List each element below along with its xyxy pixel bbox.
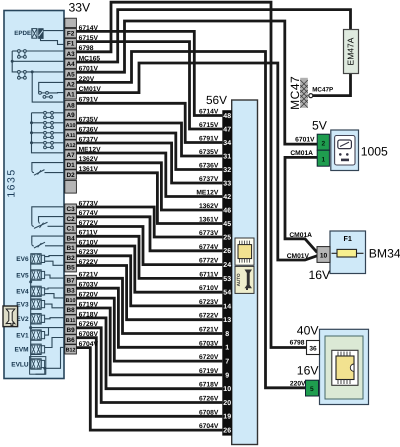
svg-text:1361V: 1361V [79, 166, 99, 173]
icon AUTO selector (central connector) [235, 266, 254, 293]
svg-text:EVLU: EVLU [11, 361, 29, 368]
svg-text:26: 26 [223, 248, 231, 255]
pin box F2 (left connector) [65, 28, 77, 37]
svg-text:6791V: 6791V [79, 97, 99, 104]
pin box C1 (left connector) [65, 224, 77, 233]
svg-text:1362V: 1362V [199, 203, 219, 210]
svg-text:6711V: 6711V [199, 271, 219, 278]
svg-text:6721V: 6721V [79, 272, 99, 279]
contact switch S1 (A3) [18, 50, 27, 59]
svg-text:1362V: 1362V [79, 156, 99, 163]
junction A5 row [31, 70, 34, 73]
selector switch C3/C2/C1 blade [32, 222, 48, 229]
svg-text:6701V: 6701V [295, 137, 315, 144]
svg-text:34: 34 [223, 140, 231, 147]
svg-text:6773V: 6773V [199, 230, 219, 237]
wire bus to contact A9 [32, 112, 44, 114]
svg-text:6774V: 6774V [199, 244, 219, 251]
pin box B4 (left connector) [65, 233, 77, 242]
wire pin C2 to selector [39, 217, 65, 222]
wire 6722V (B5 to central pin 13) [76, 266, 222, 320]
svg-text:B6: B6 [67, 337, 76, 344]
svg-text:6703V: 6703V [199, 340, 219, 347]
svg-text:B9: B9 [67, 327, 76, 334]
svg-text:6704V: 6704V [199, 423, 219, 430]
svg-text:6714V: 6714V [79, 25, 99, 32]
svg-text:16V: 16V [297, 363, 320, 377]
svg-text:6798: 6798 [79, 45, 94, 52]
pin box A4 (left connector) [65, 59, 77, 68]
component EPDE element 2 [39, 29, 44, 39]
svg-text:CM01A: CM01A [289, 232, 312, 239]
svg-text:CM01V: CM01V [79, 86, 102, 93]
svg-text:53: 53 [223, 276, 231, 283]
svg-text:B4: B4 [67, 235, 76, 242]
solenoid valve EV5 [31, 270, 45, 280]
svg-text:6726V: 6726V [199, 396, 219, 403]
wire 6791V (A8 to central pin 34) [76, 103, 222, 142]
wire EV3 to pin B8 [45, 304, 65, 308]
wire pin B4 to switch [32, 236, 65, 244]
svg-text:C1: C1 [67, 226, 76, 233]
pin box B7 (left connector) [65, 275, 77, 284]
svg-text:6719V: 6719V [79, 301, 99, 308]
wire sensor bus A9-A7 [32, 113, 65, 153]
svg-text:6703V: 6703V [79, 282, 99, 289]
wire 6726V (B9 to central pin 20) [76, 328, 222, 403]
junction bus B9 row [29, 326, 32, 329]
junction bus row A11 [30, 131, 33, 134]
svg-text:36: 36 [309, 346, 317, 353]
component BM34 body [330, 231, 366, 274]
svg-text:EV4: EV4 [16, 289, 29, 296]
svg-text:MC165: MC165 [79, 55, 101, 62]
svg-text:6711V: 6711V [79, 230, 99, 237]
wire 6701V (A5 to 1005 pin 2) [76, 21, 317, 144]
solenoid valve EV3 [31, 299, 45, 309]
svg-text:F1: F1 [67, 41, 75, 48]
pin box 36 [307, 341, 320, 355]
pictogram solenoid icon [3, 306, 18, 327]
svg-text:26: 26 [223, 428, 231, 435]
svg-text:16V: 16V [309, 268, 332, 282]
splice MC47P node [309, 94, 313, 98]
pin box A9 (left connector) [65, 110, 77, 119]
pin box A2 (left connector) [65, 79, 77, 88]
svg-text:D1: D1 [67, 162, 76, 169]
svg-text:42: 42 [223, 194, 231, 201]
svg-text:220V: 220V [79, 76, 95, 83]
svg-text:6720V: 6720V [79, 292, 99, 299]
pin box A11 (left connector) [65, 130, 77, 139]
pin box B6 (left connector) [65, 335, 77, 344]
pin box B12 (left connector) [65, 345, 77, 354]
solenoid valve EVM [31, 344, 45, 354]
svg-text:EV1: EV1 [16, 332, 29, 339]
svg-text:14: 14 [223, 303, 231, 310]
wire CM01A (1005 pin 1 to BM34 pin 10) [285, 157, 317, 252]
svg-text:A4: A4 [67, 61, 76, 68]
svg-text:6708V: 6708V [79, 331, 99, 338]
svg-text:6773V: 6773V [79, 200, 99, 207]
wire bus to contact A3 [12, 50, 17, 52]
svg-text:6708V: 6708V [199, 409, 219, 416]
solenoid valve EVLU [31, 359, 45, 369]
svg-text:7: 7 [225, 359, 229, 366]
component 1005 inner [335, 136, 355, 166]
icon chip (central connector) [235, 238, 254, 265]
wire 6714V (F2 to central pin 48) [76, 31, 222, 115]
wire 1362V (D1 to central pin 46) [76, 163, 222, 210]
wire 220V (A2 to pin 5) [76, 52, 305, 388]
pin box B5 (left connector) [65, 263, 77, 272]
wire EV4 to pin B3 [45, 288, 65, 289]
svg-text:10: 10 [320, 253, 328, 260]
wire 6715V (F1 to central pin 47) [76, 42, 222, 129]
svg-text:EV5: EV5 [16, 272, 29, 279]
svg-text:6736V: 6736V [79, 126, 99, 133]
pin box 10 (BM34) [317, 247, 330, 263]
svg-text:6710V: 6710V [199, 285, 219, 292]
svg-text:A12: A12 [66, 143, 76, 149]
wire contact S2 to pin A5 [27, 71, 65, 73]
pin box 2 (1005) [317, 134, 329, 150]
svg-text:19: 19 [223, 414, 231, 421]
svg-text:9: 9 [225, 372, 229, 379]
svg-text:6774V: 6774V [79, 210, 99, 217]
svg-text:6714V: 6714V [199, 109, 219, 116]
svg-text:A10: A10 [66, 123, 76, 129]
solenoid valve EV4 [31, 286, 45, 296]
svg-text:31: 31 [223, 153, 231, 160]
svg-text:MC47: MC47 [288, 76, 302, 110]
svg-text:6701V: 6701V [79, 66, 99, 73]
central pin strip [222, 110, 232, 435]
svg-text:6737V: 6737V [79, 136, 99, 143]
pin box B2 (left connector) [65, 253, 77, 262]
junction bus row A10 [30, 121, 33, 124]
svg-text:C2: C2 [67, 216, 76, 223]
wire switch to pin B1 [45, 245, 65, 247]
junction EVLU output [43, 367, 46, 370]
svg-text:EV6: EV6 [16, 256, 29, 263]
pin box B9 (left connector) [65, 325, 77, 334]
wire solenoid bus [30, 256, 32, 369]
wire 6772V (C1 to central pin 24) [76, 227, 222, 265]
svg-text:6718V: 6718V [199, 382, 219, 389]
wire 6704V (B12 to central pin 26) [76, 348, 222, 431]
icon chip (40V module) [332, 350, 358, 385]
wire bus junction to pin A4 [12, 60, 65, 62]
svg-text:6704V: 6704V [79, 341, 99, 348]
svg-text:EM47A: EM47A [346, 37, 356, 65]
pin box B8 (left connector) [65, 305, 77, 314]
svg-text:8: 8 [225, 331, 229, 338]
wire contact A12 to pin [54, 142, 65, 144]
pin box A12 (left connector) [65, 140, 77, 149]
shield MC47 hatch [300, 78, 308, 108]
svg-text:56V: 56V [206, 93, 227, 107]
wire bus to pin B9 [31, 327, 65, 329]
wire EV6 to pin B5 [45, 261, 65, 265]
contact switch S3 (A2/A1) [39, 92, 53, 99]
pin box blank (left connector) [65, 181, 77, 194]
svg-text:6723V: 6723V [199, 299, 219, 306]
solenoid valve EV6 [31, 254, 45, 264]
svg-text:33V: 33V [69, 1, 92, 15]
svg-text:6735V: 6735V [79, 116, 99, 123]
svg-text:45: 45 [223, 221, 231, 228]
svg-text:6772V: 6772V [79, 220, 99, 227]
wire 6737V (A12 to central pin 33) [76, 143, 222, 183]
wire pin D1 to switch [32, 163, 65, 171]
wire 6735V (A10 to central pin 31) [76, 123, 222, 156]
pin box A7 (left connector) [65, 150, 77, 159]
wire EVM to pin B6 [45, 338, 65, 348]
svg-text:CM01A: CM01A [290, 150, 313, 157]
svg-text:D2: D2 [67, 172, 76, 179]
svg-text:F2: F2 [67, 31, 75, 38]
wire junction down to A8 row [32, 72, 65, 102]
svg-text:B10: B10 [66, 298, 76, 304]
svg-text:AUTO: AUTO [236, 273, 241, 286]
svg-text:6715V: 6715V [199, 122, 219, 129]
svg-text:6772V: 6772V [199, 258, 219, 265]
junction bus EV4 [29, 280, 32, 283]
svg-text:A2: A2 [67, 82, 76, 89]
contact switch S2 (A5) [18, 71, 27, 80]
svg-text:1361V: 1361V [199, 217, 219, 224]
wire MC165 (A4 to EM47A/MC47P) [76, 10, 350, 96]
svg-text:6723V: 6723V [79, 249, 99, 256]
wire sub-cluster frame [39, 82, 65, 93]
wire bus to contact A10 [32, 122, 44, 124]
wire 6711V (B4 to central pin 53) [76, 236, 222, 278]
pin box B11 (left connector) [65, 315, 77, 324]
wire EPDE to pin F1 [41, 39, 65, 45]
svg-text:A7: A7 [67, 152, 76, 159]
wire 6719V (B8 to central pin 9) [76, 308, 222, 375]
svg-text:6722V: 6722V [199, 313, 219, 320]
pin box C2 (left connector) [65, 214, 77, 223]
svg-text:220V: 220V [290, 381, 306, 388]
svg-text:6720V: 6720V [199, 354, 219, 361]
wire 6703V (B3 to central pin 1) [76, 288, 222, 347]
svg-text:B8: B8 [67, 307, 76, 314]
svg-text:6737V: 6737V [199, 176, 219, 183]
svg-text:A1: A1 [67, 92, 76, 99]
wire CM01V (A1 to BM34 pin 10) [76, 63, 317, 260]
svg-text:6721V: 6721V [199, 327, 219, 334]
wire 6718V (B11 to central pin 10) [76, 318, 222, 389]
svg-text:40V: 40V [297, 323, 320, 337]
svg-text:MC47P: MC47P [312, 86, 333, 93]
svg-text:B12: B12 [66, 348, 76, 354]
svg-text:54: 54 [223, 290, 231, 297]
svg-text:ME12V: ME12V [196, 190, 218, 197]
svg-text:1635: 1635 [6, 168, 18, 197]
svg-text:13: 13 [223, 317, 231, 324]
pin box C3 (left connector) [65, 204, 77, 213]
double contact switch A9 [44, 111, 54, 118]
wire 6736V (A11 to central pin 32) [76, 133, 222, 170]
svg-text:2: 2 [321, 140, 325, 147]
wire EVLU bottom loop [36, 368, 45, 374]
svg-text:6719V: 6719V [199, 368, 219, 375]
pin box B1 (left connector) [65, 243, 77, 252]
svg-text:6735V: 6735V [199, 149, 219, 156]
wire EV2 to pin B11 [45, 318, 65, 319]
svg-text:1005: 1005 [361, 144, 388, 158]
svg-text:B11: B11 [66, 318, 76, 324]
pin box 1 (1005) [317, 150, 329, 166]
svg-text:EPDE: EPDE [14, 30, 31, 37]
svg-text:B5: B5 [67, 265, 76, 272]
double contact switch A10 [44, 121, 54, 128]
svg-text:5V: 5V [312, 119, 328, 133]
wire contact A9 to pin [54, 112, 65, 114]
wire 6773V (C3 to central pin 25) [76, 207, 222, 237]
pin box D1 (left connector) [65, 160, 77, 169]
svg-text:C3: C3 [67, 206, 76, 213]
pin box B3 (left connector) [65, 285, 77, 294]
wire contact A11 to pin [54, 132, 65, 134]
svg-text:47: 47 [223, 126, 231, 133]
svg-text:6791V: 6791V [199, 136, 219, 143]
svg-text:20: 20 [223, 400, 231, 407]
svg-text:A9: A9 [67, 112, 76, 119]
svg-text:6710V: 6710V [79, 239, 99, 246]
wire EV6 to pin B2 [45, 256, 65, 257]
double contact switch A11 [44, 131, 54, 138]
wire 6774V (C2 to central pin 26) [76, 217, 222, 251]
pin box A10 (left connector) [65, 120, 77, 129]
switch B4/B1 blade [32, 242, 45, 248]
wire bus to contact A12 [32, 142, 44, 144]
pin box A8 (left connector) [65, 100, 77, 109]
housing EVLU [30, 357, 46, 375]
svg-text:6798: 6798 [290, 339, 305, 346]
thermal switch D1/D2 blade [32, 170, 45, 176]
wire EPDE to pin F2 [43, 30, 65, 32]
wire 6798 (A3 to pin 36) [76, 2, 306, 347]
wire 6708V (B6 to central pin 19) [76, 338, 222, 417]
svg-text:A11: A11 [66, 133, 76, 139]
wire 1361V (D2 to central pin 45) [76, 173, 222, 224]
pin box 5 (40V module) [306, 380, 319, 396]
junction bus row A12 [30, 141, 33, 144]
svg-text:10: 10 [223, 386, 231, 393]
wire EV4 to pin B10 [45, 294, 65, 298]
wire contact S3 to pin A1 [49, 92, 65, 94]
wire switch to pin D2 [45, 172, 65, 174]
fuse F1 [332, 249, 364, 257]
wire 6710V (B1 to central pin 54) [76, 246, 222, 292]
svg-text:ME12V: ME12V [79, 146, 101, 153]
svg-text:B1: B1 [67, 245, 76, 252]
svg-text:A3: A3 [67, 51, 76, 58]
pin box B10 (left connector) [65, 295, 77, 304]
ECU box 1635 [4, 11, 64, 379]
svg-text:F1: F1 [344, 234, 352, 243]
pin box D2 (left connector) [65, 170, 77, 179]
svg-text:46: 46 [223, 207, 231, 214]
wire EV1 to junction B9 wire [45, 328, 49, 336]
double contact switch A12 [44, 141, 54, 148]
svg-text:A8: A8 [67, 102, 76, 109]
svg-text:6736V: 6736V [199, 163, 219, 170]
pin box F1 (left connector) [65, 39, 77, 48]
wire contact S1 to pin A3 [27, 50, 65, 52]
component 1005 body [331, 130, 359, 171]
wire bus to contact A11 [32, 132, 44, 134]
svg-text:5: 5 [310, 386, 314, 393]
svg-text:A5: A5 [67, 71, 76, 78]
svg-text:6722V: 6722V [79, 259, 99, 266]
junction on bus (A4 row) [11, 60, 14, 63]
svg-text:32: 32 [223, 167, 231, 174]
wire selector to pin C1 [48, 225, 65, 227]
wire pin C3 to selector [32, 207, 65, 224]
svg-text:6715V: 6715V [79, 35, 99, 42]
svg-text:BM34: BM34 [369, 247, 400, 261]
wire EV5 to pin B7 [45, 275, 65, 278]
svg-text:CM01V: CM01V [287, 253, 310, 260]
svg-text:6718V: 6718V [79, 311, 99, 318]
svg-text:B2: B2 [67, 255, 76, 262]
solenoid valve EV2 [31, 314, 45, 324]
svg-text:1: 1 [321, 156, 325, 163]
wire switch bus A3-A5 [12, 51, 17, 72]
central connector 56V body [232, 100, 258, 445]
wire ME12V (A7 to central pin 42) [76, 153, 222, 197]
pin box A3 (left connector) [65, 49, 77, 58]
component EPDE element 1 [32, 29, 37, 39]
svg-text:1: 1 [225, 345, 229, 352]
svg-text:B7: B7 [67, 277, 76, 284]
wire 6720V (B10 to central pin 7) [76, 298, 222, 361]
pin box A1 (left connector) [65, 90, 77, 99]
component EM47A [344, 30, 359, 74]
component 40V module inner green [325, 336, 363, 399]
solenoid valve EV1 [31, 330, 45, 340]
wire 6721V (B7 to central pin 8) [76, 278, 222, 333]
pin box blank (left connector) [65, 18, 77, 27]
pin box A5 (left connector) [65, 69, 77, 78]
svg-text:25: 25 [223, 234, 231, 241]
svg-text:B3: B3 [67, 287, 76, 294]
wire contact A10 to pin [54, 122, 65, 124]
svg-text:6726V: 6726V [79, 321, 99, 328]
svg-text:24: 24 [223, 262, 231, 269]
svg-text:33: 33 [223, 180, 231, 187]
svg-text:48: 48 [223, 113, 231, 120]
component 40V module body [320, 329, 369, 404]
wire EVLU to pin B12 [45, 347, 65, 368]
wire 6723V (B2 to central pin 14) [76, 256, 222, 306]
svg-text:EVM: EVM [15, 347, 29, 354]
